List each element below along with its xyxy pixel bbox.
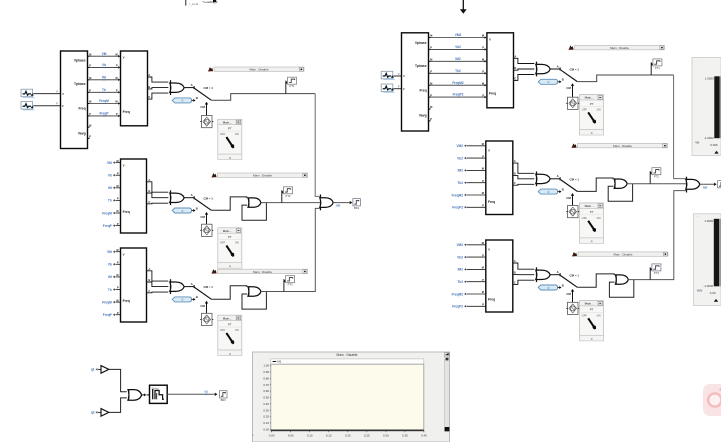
svg-text:VM2: VM2 xyxy=(456,144,463,148)
svg-text:Main...: Main... xyxy=(585,96,594,100)
latch gate G6 with feedback xyxy=(211,286,266,309)
svg-text:A: A xyxy=(148,267,150,271)
switch SW5 (CM = 1) xyxy=(538,174,579,205)
subsystem U6 (logic) xyxy=(487,33,514,108)
svg-text:0.20: 0.20 xyxy=(263,415,269,419)
subsystem U1 (Vphase/Tphase/Freq/Vavg) xyxy=(61,51,88,149)
svg-text:M: M xyxy=(116,101,118,104)
svg-text:CM = 1: CM = 1 xyxy=(570,273,580,277)
svg-text:0.10: 0.10 xyxy=(263,421,269,425)
svg-text:C: C xyxy=(148,200,150,204)
wire vertical to xor G7 top xyxy=(315,94,320,197)
latch gate G13 with feedback xyxy=(577,274,634,297)
panel P4 (manual switch OFF/ON) xyxy=(580,95,604,135)
step block BR1 xyxy=(353,199,361,210)
svg-text:ON: ON xyxy=(235,328,239,332)
pt-block PT2 xyxy=(282,187,293,203)
svg-text:F: F xyxy=(56,102,58,106)
modulator block MOD6 xyxy=(566,302,579,314)
svg-text:FreqM: FreqM xyxy=(102,211,112,215)
svg-text:M: M xyxy=(117,299,119,302)
svg-text:IM: IM xyxy=(108,186,112,190)
svg-text:IM2: IM2 xyxy=(458,169,464,173)
source block SRC4 (F) xyxy=(381,84,401,92)
modulator block MOD4 xyxy=(566,97,579,109)
signal tag q1 xyxy=(91,368,101,372)
svg-text:V: V xyxy=(489,37,491,41)
panel P5 (manual switch OFF/ON) xyxy=(580,203,604,243)
svg-text:0.05: 0.05 xyxy=(288,434,294,438)
svg-text:Freq: Freq xyxy=(123,110,130,114)
svg-text:VM2: VM2 xyxy=(456,243,463,247)
svg-text:PT2: PT2 xyxy=(654,175,659,179)
panel P6 (manual switch OFF/ON) xyxy=(580,301,604,341)
svg-text:Main...: Main... xyxy=(223,316,232,320)
svg-text:1.0000: 1.0000 xyxy=(704,219,713,223)
svg-text:FreqM2: FreqM2 xyxy=(452,81,464,85)
svg-text:Vavg: Vavg xyxy=(78,132,86,136)
svg-text:Vb2: Vb2 xyxy=(457,156,463,160)
svg-text:M: M xyxy=(482,35,484,38)
svg-text:Vb: Vb xyxy=(108,263,112,267)
svg-text:FreqP: FreqP xyxy=(103,224,113,228)
svg-text:0.70: 0.70 xyxy=(263,383,269,387)
svg-text:0.000: 0.000 xyxy=(710,143,718,147)
svg-text:FreqP2: FreqP2 xyxy=(453,93,464,97)
svg-text:A: A xyxy=(514,159,516,163)
svg-text:A: A xyxy=(191,193,194,197)
svg-text:Th: Th xyxy=(108,288,112,292)
top label LoadRq xyxy=(203,0,218,4)
svg-text:Tphase: Tphase xyxy=(74,82,86,86)
svg-text:M: M xyxy=(117,210,119,213)
svg-text:B: B xyxy=(562,78,564,82)
svg-text:CM: CM xyxy=(200,304,205,308)
svg-text:M: M xyxy=(430,106,432,109)
svg-text:ON: ON xyxy=(235,241,239,245)
svg-text:B: B xyxy=(514,66,516,70)
svg-text:M: M xyxy=(482,291,484,294)
svg-text:V: V xyxy=(488,248,490,252)
svg-text:PT1: PT1 xyxy=(655,66,660,70)
subsystem U4 (logic) xyxy=(121,248,147,322)
svg-text:A: A xyxy=(191,83,194,87)
svg-text:0.40: 0.40 xyxy=(421,434,427,438)
svg-text:B: B xyxy=(196,96,198,100)
wire G7 to BR1 xyxy=(334,201,353,208)
svg-text:C: C xyxy=(514,280,516,284)
svg-text:P: P xyxy=(430,118,432,121)
svg-text:0.00: 0.00 xyxy=(263,427,269,431)
or-gate G8 xyxy=(536,62,560,77)
pt-block PT3r xyxy=(650,264,661,280)
svg-text:M: M xyxy=(482,242,484,245)
svg-text:-1.0000: -1.0000 xyxy=(704,136,714,140)
svg-text:Freq: Freq xyxy=(488,200,495,204)
svg-text:FreqM: FreqM xyxy=(102,300,112,304)
pt-block PT2r xyxy=(650,168,661,184)
svg-text:C: C xyxy=(148,95,150,99)
svg-text:A: A xyxy=(514,259,516,263)
wire SW4 output run xyxy=(577,75,673,82)
svg-text:-1.0000: -1.0000 xyxy=(703,284,713,288)
switch SW2 (CM = 1) xyxy=(172,193,213,224)
svg-text:CM: CM xyxy=(566,86,571,90)
svg-text:• •: • • xyxy=(695,60,697,62)
svg-text:d1: d1 xyxy=(204,390,208,394)
or-gate G9 xyxy=(536,171,560,186)
svg-text:M: M xyxy=(116,77,118,80)
svg-text:FreqP: FreqP xyxy=(103,313,113,317)
U2 input pin labels xyxy=(116,53,118,116)
svg-text:M1: M1 xyxy=(336,204,340,208)
buffer B1 xyxy=(101,366,109,374)
svg-text:B: B xyxy=(148,85,150,89)
modulator block MOD3 xyxy=(200,313,213,325)
U5 output pins M/P xyxy=(429,35,433,121)
source block SRC3 (V) xyxy=(381,71,401,79)
svg-text:M: M xyxy=(482,143,484,146)
or-gate G2 xyxy=(170,190,194,205)
gauge meter GA1 (VM) xyxy=(692,58,721,156)
svg-text:M2: M2 xyxy=(703,185,707,189)
svg-text:BR3: BR3 xyxy=(221,398,227,402)
svg-text:IM2: IM2 xyxy=(458,268,464,272)
svg-text:OFF: OFF xyxy=(220,241,226,245)
svg-text:OFF: OFF xyxy=(582,313,588,317)
svg-text:A: A xyxy=(557,270,560,274)
panel P1 (manual switch OFF/ON) xyxy=(218,119,242,159)
xor gate G14 xyxy=(128,390,150,401)
wire G5 output to xor G7 xyxy=(261,202,320,204)
svg-text:B: B xyxy=(148,278,150,282)
svg-text:P: P xyxy=(89,136,91,139)
svg-text:PT: PT xyxy=(228,322,232,326)
svg-text:M1: M1 xyxy=(277,360,281,364)
switch SW1 (CM = 1) xyxy=(172,83,213,116)
U1 output pins M/P xyxy=(88,53,92,138)
svg-text:• •: • • xyxy=(697,216,699,218)
svg-text:V: V xyxy=(123,56,125,60)
svg-text:VM2: VM2 xyxy=(697,289,703,293)
svg-text:ON: ON xyxy=(597,313,601,317)
svg-text:PT3: PT3 xyxy=(654,271,659,275)
U6 input pin labels xyxy=(482,35,484,98)
svg-text:Freq: Freq xyxy=(489,92,496,96)
svg-text:Main : Disable: Main : Disable xyxy=(613,252,632,256)
svg-text:C: C xyxy=(148,289,150,293)
delay block DL1 xyxy=(150,385,168,403)
svg-text:Main : Disable: Main : Disable xyxy=(253,174,272,178)
svg-text:Th2: Th2 xyxy=(457,181,463,185)
svg-text:1.0000: 1.0000 xyxy=(705,77,714,81)
svg-text:0.00: 0.00 xyxy=(269,434,275,438)
svg-text:IM: IM xyxy=(102,75,106,79)
step block BR2 (cut off) xyxy=(718,181,721,188)
svg-text:Main...: Main... xyxy=(585,204,594,208)
svg-text:q1: q1 xyxy=(91,368,95,372)
svg-text:PT: PT xyxy=(228,127,232,131)
switch SW3 (CM = 1) xyxy=(172,282,213,313)
bar MD6 (Main : Disable) xyxy=(572,252,668,257)
U3 outputs A/B/C feeders xyxy=(147,178,169,204)
svg-text:B: B xyxy=(514,172,516,176)
svg-text:B: B xyxy=(562,187,564,191)
svg-text:A: A xyxy=(148,73,150,77)
svg-text:A: A xyxy=(514,54,516,58)
svg-text:A: A xyxy=(557,64,560,68)
svg-text:Freq: Freq xyxy=(488,297,495,301)
or-gate G12 (3 input combine) xyxy=(686,177,700,193)
watermark logo xyxy=(703,384,721,416)
svg-text:0.20: 0.20 xyxy=(345,434,351,438)
svg-text:0.10: 0.10 xyxy=(307,434,313,438)
U7 outputs A/B/C feeders xyxy=(513,159,535,185)
svg-text:CM = 1: CM = 1 xyxy=(570,177,580,181)
U4 outputs A/B/C feeders xyxy=(147,267,169,293)
wire G6 output up to xor G7 xyxy=(261,208,320,291)
svg-text:0.80: 0.80 xyxy=(263,376,269,380)
latch gate G10 with feedback xyxy=(577,178,632,201)
wire SW1 output run xyxy=(211,94,315,101)
svg-text:0.25: 0.25 xyxy=(364,434,370,438)
modulator block MOD2 xyxy=(200,224,213,236)
svg-text:Freq: Freq xyxy=(78,107,85,111)
signal tags into U8 xyxy=(452,242,486,309)
svg-text:VM2: VM2 xyxy=(455,33,462,37)
svg-text:1.00: 1.00 xyxy=(263,364,269,368)
svg-text:FreqM: FreqM xyxy=(99,99,109,103)
subsystem U7 (logic) xyxy=(486,141,513,215)
svg-text:FreqM2: FreqM2 xyxy=(452,193,464,197)
svg-text:Main : Disable: Main : Disable xyxy=(613,144,632,148)
wire G10 output to xor G12 xyxy=(627,183,686,185)
panel P3 (manual switch OFF/ON) xyxy=(218,315,242,355)
buffer B2 xyxy=(101,409,109,417)
wires U1 to U2 with signal labels xyxy=(90,52,121,117)
svg-text:M: M xyxy=(482,59,484,62)
svg-text:M: M xyxy=(117,185,119,188)
svg-text:OFF: OFF xyxy=(582,216,588,220)
svg-text:FreqM2: FreqM2 xyxy=(452,292,464,296)
source block SRC1 (V) xyxy=(21,89,61,97)
switch SW6 (CM = 1) xyxy=(538,270,579,302)
svg-text:FreqP: FreqP xyxy=(99,112,109,116)
signal tags into U3 xyxy=(102,160,120,228)
svg-text:VM: VM xyxy=(107,250,112,254)
svg-text:OFF: OFF xyxy=(582,108,588,112)
svg-text:M: M xyxy=(482,168,484,171)
svg-text:CM: CM xyxy=(200,215,205,219)
svg-text:PT: PT xyxy=(590,210,594,214)
svg-text:V: V xyxy=(398,72,400,76)
svg-text:Main...: Main... xyxy=(223,229,232,233)
svg-text:0.40: 0.40 xyxy=(263,402,269,406)
signal tags into U7 xyxy=(452,143,486,210)
U2 outputs A/B/C feeders xyxy=(148,73,169,99)
svg-text:q2: q2 xyxy=(91,411,95,415)
svg-text:Th: Th xyxy=(102,88,106,92)
svg-text:M: M xyxy=(117,274,119,277)
bar MD3 (Main : Disable) xyxy=(212,269,308,274)
svg-text:M: M xyxy=(482,192,484,195)
latch gate G5 with feedback xyxy=(211,197,266,220)
svg-text:Main...: Main... xyxy=(585,302,594,306)
top arrow xyxy=(460,0,467,14)
bar MD5 (Main : Disable) xyxy=(572,143,668,148)
U6 outputs A/B/C feeders xyxy=(514,54,535,80)
svg-text:PT: PT xyxy=(590,308,594,312)
svg-text:M: M xyxy=(482,82,484,85)
step block BR3 xyxy=(220,391,228,402)
or-gate G3 xyxy=(170,279,194,294)
svg-text:0.15: 0.15 xyxy=(326,434,332,438)
svg-text:FreqP2: FreqP2 xyxy=(452,206,463,210)
svg-text:B: B xyxy=(514,271,516,275)
svg-text:CM: CM xyxy=(566,292,571,296)
wire G13 output up to xor G12 xyxy=(628,191,685,280)
svg-text:Vphase: Vphase xyxy=(415,41,427,45)
scope panel SC1 (Main : Disable) xyxy=(252,352,450,442)
svg-text:B: B xyxy=(562,283,564,287)
pt-block PT1r xyxy=(651,59,662,75)
svg-text:Th: Th xyxy=(108,199,112,203)
svg-text:Freq: Freq xyxy=(123,299,130,303)
svg-text:M: M xyxy=(116,53,118,56)
wire B1 to xor G14 xyxy=(109,369,127,391)
svg-text:C: C xyxy=(514,181,516,185)
svg-text:0.30: 0.30 xyxy=(263,408,269,412)
svg-text:CM = 1: CM = 1 xyxy=(204,86,214,90)
svg-text:BR1: BR1 xyxy=(354,206,360,210)
svg-text:B: B xyxy=(148,189,150,193)
svg-text:IM: IM xyxy=(108,275,112,279)
svg-text:ON: ON xyxy=(597,108,601,112)
pt-block PT3 xyxy=(284,276,295,292)
U8 outputs A/B/C feeders xyxy=(513,259,535,284)
wire vertical to xor G12 top xyxy=(674,75,686,179)
svg-text:M: M xyxy=(482,267,484,270)
modulator block MOD5 xyxy=(566,206,579,218)
svg-text:Th2: Th2 xyxy=(455,69,461,73)
bar MD2 (Main : Disable) xyxy=(212,173,308,178)
svg-text:0.30: 0.30 xyxy=(383,434,389,438)
svg-text:B: B xyxy=(196,295,198,299)
subsystem U8 (logic) xyxy=(486,240,513,312)
svg-text:Vb2: Vb2 xyxy=(455,45,461,49)
svg-text:CM = 1: CM = 1 xyxy=(204,196,214,200)
svg-text:Tphase: Tphase xyxy=(415,64,427,68)
gauge meter GA2 (VM2) xyxy=(694,214,721,306)
wires U5 to U6 with signal labels xyxy=(431,33,487,98)
svg-text:A: A xyxy=(148,178,150,182)
panel P2 (manual switch OFF/ON) xyxy=(218,228,242,268)
svg-text:Main : Disable: Main : Disable xyxy=(610,46,629,50)
svg-text:CM: CM xyxy=(200,105,205,109)
subsystem U3 (logic) xyxy=(121,159,147,233)
svg-text:Main...: Main... xyxy=(223,120,232,124)
svg-text:ON: ON xyxy=(597,216,601,220)
svg-text:Vb: Vb xyxy=(102,63,106,67)
svg-text:A: A xyxy=(191,282,194,286)
or-gate G11 xyxy=(536,267,560,282)
svg-text:V: V xyxy=(56,89,58,93)
svg-text:F: F xyxy=(398,85,400,89)
top label t_local xyxy=(186,0,199,6)
svg-text:M: M xyxy=(89,124,91,127)
svg-text:CM = 1: CM = 1 xyxy=(570,68,580,72)
svg-text:0.00: 0.00 xyxy=(710,291,716,295)
svg-text:M: M xyxy=(117,160,119,163)
svg-text:Th2: Th2 xyxy=(457,280,463,284)
svg-text:Vb2: Vb2 xyxy=(457,255,463,259)
wire DL1 to BR3 xyxy=(167,390,217,396)
svg-text:CM = 1: CM = 1 xyxy=(204,285,214,289)
svg-text:M: M xyxy=(117,249,119,252)
source block SRC2 (F) xyxy=(21,102,61,110)
svg-text:VM: VM xyxy=(107,161,112,165)
svg-text:Vphase: Vphase xyxy=(74,59,86,63)
wire G12 to edge block xyxy=(700,183,717,190)
svg-text:V: V xyxy=(123,253,125,257)
svg-text:B: B xyxy=(196,206,198,210)
pt-block PT1 xyxy=(286,77,297,93)
svg-text:Main : Disable: Main : Disable xyxy=(337,353,358,357)
svg-text:Vavg: Vavg xyxy=(419,113,427,117)
subsystem U2 (logic) xyxy=(121,51,148,126)
signal tag q2 xyxy=(91,411,101,415)
svg-text:OFF: OFF xyxy=(220,132,226,136)
svg-text:PT3: PT3 xyxy=(288,283,293,287)
svg-text:0.60: 0.60 xyxy=(263,389,269,393)
svg-text:FreqP2: FreqP2 xyxy=(452,305,463,309)
svg-text:ON: ON xyxy=(235,132,239,136)
svg-text:IM2: IM2 xyxy=(455,57,461,61)
svg-text:CM: CM xyxy=(566,196,571,200)
or-gate G1 xyxy=(170,80,194,95)
svg-text:Freq: Freq xyxy=(419,89,426,93)
svg-text:Vb: Vb xyxy=(108,174,112,178)
wire B2 to xor G14 xyxy=(109,398,127,413)
subsystem U5 (Vphase/Tphase/Freq/Vavg) xyxy=(402,33,429,131)
svg-text:Main : Disable: Main : Disable xyxy=(253,270,272,274)
modulator block MOD1 xyxy=(200,116,213,128)
svg-text:0.35: 0.35 xyxy=(402,434,408,438)
svg-text:PT: PT xyxy=(590,102,594,106)
svg-text:V: V xyxy=(488,149,490,153)
svg-text:V: V xyxy=(123,164,125,168)
switch SW4 (CM = 1) xyxy=(538,64,579,97)
svg-text:PT: PT xyxy=(228,235,232,239)
svg-text:PT1: PT1 xyxy=(290,84,295,88)
svg-text:t_local: t_local xyxy=(189,2,198,6)
svg-text:Main : Disable: Main : Disable xyxy=(249,68,268,72)
svg-text:PT2: PT2 xyxy=(286,194,291,198)
svg-text:0.90: 0.90 xyxy=(263,370,269,374)
svg-text:OFF: OFF xyxy=(220,328,226,332)
bar MD4 (Main : Disable) xyxy=(569,45,665,50)
svg-text:VM: VM xyxy=(102,52,107,56)
bar MD1 (Main : Disable) xyxy=(208,67,304,72)
signal tags into U4 xyxy=(102,249,120,317)
svg-text:A: A xyxy=(557,174,560,178)
svg-text:0.50: 0.50 xyxy=(263,396,269,400)
or-gate G7 (3 input combine) xyxy=(320,195,333,211)
svg-text:C: C xyxy=(514,76,516,80)
svg-text:Freq: Freq xyxy=(123,210,130,214)
